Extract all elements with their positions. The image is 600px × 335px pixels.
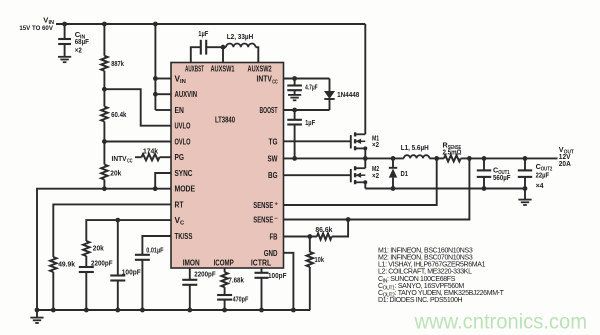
- node junction SENSE+ tap: [434, 156, 439, 161]
- svg-text:4.7µF: 4.7µF: [305, 83, 318, 92]
- wire 60.4k to OVLO node: [103, 89, 105, 141]
- ground below 4.7uF: [288, 90, 301, 100]
- 1uF aux value label: [198, 29, 208, 38]
- node junction SW at M1/M2: [363, 156, 368, 161]
- RSENSE value label: [443, 141, 462, 157]
- capacitor COUT2 22uF: [518, 158, 532, 188]
- svg-text:AUXSW1: AUXSW1: [211, 65, 235, 74]
- svg-text:LT3840: LT3840: [215, 115, 235, 124]
- wire 887k to UVLO node: [103, 71, 105, 89]
- 7.68k value label: [228, 275, 244, 284]
- node junction COUT1 top: [482, 156, 487, 161]
- capacitor 100pF compensation: [110, 276, 125, 281]
- U1 pin label AUXSW2: [248, 65, 273, 74]
- wire M2 source to power ground rail: [364, 182, 366, 188]
- ground below CIN: [58, 57, 71, 62]
- svg-text:M1: INFINEON, BSC160N10NS3: M1: INFINEON, BSC160N10NS3: [378, 247, 473, 254]
- U1 pin label UVLO: [175, 122, 191, 131]
- BOM note line 8: [378, 297, 462, 304]
- svg-text:ICTRL: ICTRL: [251, 258, 271, 267]
- svg-text:10k: 10k: [315, 255, 325, 264]
- 100pF ICTRL value label: [268, 271, 287, 280]
- U1 pin label GND: [264, 249, 278, 258]
- svg-text:D1: D1: [401, 169, 409, 178]
- U1 pin label IMON: [183, 258, 200, 267]
- wire PG line left end: [135, 156, 142, 158]
- wire EN pin stub: [155, 109, 171, 111]
- op-amp U1 LT3840 controller IC body: [171, 63, 284, 269]
- watermark cntronics: [414, 311, 587, 334]
- svg-text:×2: ×2: [372, 140, 379, 149]
- svg-text:FB: FB: [270, 233, 278, 242]
- node junction OVLO divider tap: [102, 139, 107, 144]
- wire 2200pF to ground rail: [85, 272, 87, 310]
- resistor 86.6k: [317, 233, 332, 239]
- wire VC line: [86, 220, 171, 241]
- resistor RSENSE 2.5mohm: [444, 155, 461, 161]
- capacitor 2200pF IMON: [182, 280, 197, 285]
- svg-text:IMON: IMON: [183, 258, 200, 267]
- BOM note line 4: [378, 269, 472, 276]
- wire VIN vertical to EN: [154, 24, 156, 110]
- U1 pin label AUXBST: [185, 65, 204, 74]
- wire IMON cap to ground rail: [189, 285, 191, 310]
- wire MODE line to ground: [37, 189, 171, 310]
- inductor L2 33uH: [223, 44, 256, 48]
- U1 pin label INTVCC: [257, 75, 279, 86]
- node junction ground symbol tap: [35, 308, 40, 313]
- U1 pin label MODE: [175, 185, 196, 194]
- U1 pin label OVLO: [175, 138, 191, 147]
- 10k value label: [315, 255, 325, 264]
- wire ground rail: [37, 309, 310, 311]
- node junction divider bottom on MODE line: [102, 186, 107, 191]
- CIN value label: [75, 30, 89, 54]
- wire UVLO branch: [104, 89, 171, 126]
- node junction FB 10k tap: [307, 234, 312, 239]
- wire SYNC stub: [155, 173, 171, 189]
- capacitor 2200pF compensation: [79, 267, 94, 272]
- svg-text:470pF: 470pF: [233, 294, 249, 303]
- svg-text:49.9k: 49.9k: [58, 259, 75, 268]
- svg-text:AUXBST: AUXBST: [185, 65, 204, 74]
- svg-text:L2: COILCRAFT, ME3220-333KL: L2: COILCRAFT, ME3220-333KL: [378, 269, 472, 276]
- svg-text:7.68k: 7.68k: [228, 275, 244, 284]
- diode D1: [389, 158, 397, 188]
- wire 470pF to ground rail: [224, 300, 226, 310]
- svg-text:×2: ×2: [75, 45, 82, 54]
- svg-text:L1: VISHAY, IHLP6767GZER5R6MA1: L1: VISHAY, IHLP6767GZER5R6MA1: [378, 262, 486, 269]
- svg-text:IN: IN: [180, 79, 186, 85]
- U1 pin label PG: [175, 153, 185, 162]
- resistor 20k compensation: [83, 241, 89, 256]
- svg-text:INTV: INTV: [112, 154, 128, 163]
- node junction D1 cathode on SW: [391, 156, 396, 161]
- node junction ground rail at ICTRL cap: [259, 308, 264, 313]
- node junction COUT2 top: [523, 156, 528, 161]
- ground main rail symbol: [30, 310, 43, 323]
- svg-text:86.6k: 86.6k: [315, 225, 333, 234]
- wire L1 to RSENSE: [429, 157, 444, 159]
- wire VIN rail to R 887k: [103, 24, 105, 56]
- wire AUXVIN pin stub: [155, 93, 171, 95]
- svg-text:174k: 174k: [143, 147, 159, 156]
- svg-text:15V TO 60V: 15V TO 60V: [19, 25, 53, 32]
- wire FB line: [284, 236, 317, 238]
- wire 20k to MODE line: [103, 180, 105, 189]
- U1 pin label AUXVIN: [175, 90, 198, 99]
- svg-text:×4: ×4: [536, 181, 544, 190]
- BOM note line 3: [378, 262, 486, 269]
- node junction 887k tap: [102, 22, 107, 27]
- svg-text:SYNC: SYNC: [175, 169, 193, 178]
- D1 reference label: [401, 169, 409, 178]
- svg-text:20k: 20k: [93, 244, 105, 253]
- svg-text:RT: RT: [175, 200, 184, 209]
- wire 86.6k to SENSE- line: [332, 220, 348, 237]
- capacitor CIN 68uF: [58, 24, 71, 56]
- svg-text:SW: SW: [268, 154, 278, 163]
- node junction 86.6k on SENSE- line: [346, 217, 351, 222]
- node VOUT output terminal label: [559, 145, 575, 168]
- svg-text:TG: TG: [269, 137, 278, 146]
- svg-text:SENSE: SENSE: [253, 216, 273, 225]
- svg-text:0.01µF: 0.01µF: [146, 246, 163, 255]
- svg-text:100pF: 100pF: [122, 267, 141, 276]
- capacitor 100pF ICTRL: [255, 273, 269, 278]
- BOM note line 2: [378, 255, 473, 262]
- transistor M2: [351, 166, 368, 184]
- wire 0.01uF to ground rail: [141, 260, 143, 310]
- node junction ground rail at 470pF: [222, 308, 227, 313]
- wire 100pF to ground rail: [117, 281, 119, 311]
- node junction ground rail at GND pin: [291, 308, 296, 313]
- capacitor COUT1 560uF: [477, 158, 491, 188]
- node junction BOOST cap tap: [292, 108, 297, 113]
- resistor 60.4k: [101, 107, 107, 122]
- svg-text:BG: BG: [268, 171, 278, 180]
- svg-text:2200pF: 2200pF: [91, 258, 113, 267]
- BOM note line 1: [378, 247, 473, 254]
- U1 pin label TK/SS: [175, 232, 193, 241]
- inductor L1 5.6uH: [404, 155, 430, 158]
- U1 pin label SW: [268, 154, 278, 163]
- svg-text:L2, 33µH: L2, 33µH: [227, 32, 254, 41]
- wire BG line: [284, 174, 351, 176]
- U1 part number label LT3840: [215, 115, 235, 124]
- node junction ground rail at 49.9k: [51, 308, 56, 313]
- svg-text:D1: DIODES INC. PDS5100H: D1: DIODES INC. PDS5100H: [378, 297, 462, 304]
- 100pF compensation value label: [122, 267, 141, 276]
- wire ICTRL stub: [261, 268, 263, 273]
- wire BOOST line: [284, 109, 330, 111]
- node junction VIN pin tap: [153, 22, 158, 27]
- svg-text:PG: PG: [175, 153, 185, 162]
- M1 reference label: [372, 133, 379, 149]
- 2200pF compensation value label: [91, 258, 113, 267]
- BOM note line 7: [378, 290, 505, 299]
- resistor 174k: [142, 154, 160, 160]
- wire GND pin to ground rail: [284, 253, 294, 310]
- wire TG line: [284, 140, 351, 142]
- wire SENSE+ return: [284, 158, 437, 205]
- svg-text:AUXVIN: AUXVIN: [175, 90, 198, 99]
- wire 49.9k to ground rail: [52, 272, 54, 310]
- node VIN input terminal label: [19, 15, 54, 32]
- node junction VC 100pF tap: [115, 218, 120, 223]
- COUT2 value label: [536, 162, 553, 190]
- L2 value label: [227, 32, 254, 41]
- ground below COUT2: [518, 189, 531, 206]
- node junction ground rail at 2200pF: [84, 308, 89, 313]
- svg-text:2.5mΩ: 2.5mΩ: [443, 147, 462, 156]
- node junction AUXSW1: [221, 45, 226, 50]
- U1 pin label BG: [268, 171, 278, 180]
- svg-text:MODE: MODE: [175, 185, 196, 194]
- 20k compensation value label: [93, 244, 105, 253]
- 49.9k value label: [58, 259, 75, 268]
- 1uF boost value label: [305, 118, 315, 127]
- wire AUXBST stub: [191, 47, 201, 62]
- node junction CIN tap: [62, 22, 67, 27]
- wire VIN pin stub: [155, 78, 171, 80]
- M2 reference label: [372, 164, 379, 180]
- svg-text:www.cntronics.com: www.cntronics.com: [414, 311, 587, 334]
- wire ICOMP stub: [224, 268, 226, 272]
- svg-text:L1, 5.6µH: L1, 5.6µH: [401, 143, 429, 152]
- resistor 20k divider: [101, 142, 107, 180]
- wire AUXSW1 stub: [222, 47, 224, 62]
- svg-text:2200pF: 2200pF: [194, 269, 216, 278]
- svg-text:1N4448: 1N4448: [337, 90, 359, 99]
- U1 pin label FB: [270, 233, 278, 242]
- svg-text:20A: 20A: [559, 159, 571, 168]
- 174k value label: [143, 147, 159, 156]
- wire 10k to ground rail: [309, 267, 311, 310]
- 0.01uF value label: [146, 246, 163, 255]
- capacitor 0.01uF soft-start: [135, 255, 150, 260]
- U1 pin label ICOMP: [214, 258, 235, 267]
- wire VIN to M1 drain: [364, 24, 366, 134]
- wire RT line: [53, 204, 171, 257]
- wire TK/SS line: [142, 236, 171, 255]
- svg-text:×2: ×2: [372, 171, 379, 180]
- 1N4448 value label: [337, 90, 359, 99]
- transistor M1: [351, 132, 368, 150]
- node junction VIN pin: [153, 76, 158, 81]
- resistor 49.9k: [50, 257, 56, 272]
- wire power ground rail: [365, 188, 525, 190]
- wire VIN rail: [56, 23, 365, 25]
- U1 pin label SYNC: [175, 169, 193, 178]
- wire RSENSE to output: [461, 157, 558, 159]
- node junction COUT2 bottom: [523, 186, 528, 191]
- svg-text:CC: CC: [272, 79, 278, 85]
- capacitor 1uF aux boost: [201, 40, 206, 55]
- 86.6k value label: [315, 225, 333, 234]
- U1 pin label RT: [175, 200, 184, 209]
- svg-text:GND: GND: [264, 249, 278, 258]
- U1 pin label TG: [269, 137, 278, 146]
- wire OVLO line: [104, 141, 171, 143]
- U1 pin label AUXSW1: [211, 65, 235, 74]
- wire INTVCC line: [284, 78, 330, 80]
- svg-text:EN: EN: [175, 106, 184, 115]
- BOM note line 6: [378, 283, 464, 292]
- node junction D1 anode on power ground: [391, 186, 396, 191]
- svg-text:ICOMP: ICOMP: [214, 258, 235, 267]
- node junction ground rail at 100pF: [115, 308, 120, 313]
- wire M2 drain to SW: [364, 158, 366, 168]
- capacitor 1uF boost: [287, 110, 302, 125]
- L1 value label: [401, 143, 429, 152]
- svg-text:1µF: 1µF: [305, 118, 315, 127]
- svg-text:INTV: INTV: [257, 75, 273, 84]
- svg-text:AUXSW2: AUXSW2: [248, 65, 273, 74]
- diode 1N4448: [324, 79, 335, 111]
- 60.4k value label: [111, 110, 127, 119]
- U1 pin label ICTRL: [251, 258, 271, 267]
- 4.7uF value label: [305, 83, 318, 92]
- svg-text:100pF: 100pF: [268, 271, 287, 280]
- U1 pin label EN: [175, 106, 184, 115]
- svg-text:20k: 20k: [110, 169, 122, 178]
- node junction ground rail at 0.01uF: [140, 308, 145, 313]
- svg-text:887k: 887k: [111, 59, 124, 68]
- 20k divider value label: [110, 169, 122, 178]
- svg-text:SENSE: SENSE: [253, 201, 273, 210]
- wire M1 source to SW: [364, 148, 366, 158]
- wire SW line: [284, 157, 404, 159]
- U1 pin label VC: [175, 216, 186, 227]
- svg-text:60.4k: 60.4k: [111, 110, 127, 119]
- U1 pin label SENSE+: [253, 201, 278, 210]
- svg-text:22µF: 22µF: [536, 170, 550, 179]
- svg-text:BOOST: BOOST: [260, 106, 278, 115]
- node junction UVLO divider tap: [102, 87, 107, 92]
- U1 pin label VIN: [175, 75, 186, 86]
- wire VC to 100pF: [117, 220, 119, 275]
- wire 7.68k to 470pF: [224, 287, 226, 295]
- wire IMON stub: [189, 268, 191, 280]
- capacitor 470pF: [217, 295, 232, 300]
- svg-text:560µF: 560µF: [493, 173, 511, 182]
- wire 20k to 2200pF: [85, 256, 87, 267]
- resistor 887k: [101, 56, 107, 71]
- wire AUXSW2 stub: [256, 47, 259, 62]
- svg-text:CC: CC: [127, 159, 133, 165]
- 2200pF IMON value label: [194, 269, 216, 278]
- U1 pin label BOOST: [260, 106, 278, 115]
- capacitor 4.7uF INTVCC: [287, 79, 302, 91]
- svg-text:TK/SS: TK/SS: [175, 232, 193, 241]
- node junction ground rail at IMON cap: [187, 308, 192, 313]
- resistor 7.68k: [221, 272, 227, 287]
- 470pF value label: [233, 294, 249, 303]
- node junction SENSE- tap: [467, 156, 472, 161]
- wire 174k to PG pin: [160, 156, 172, 158]
- node junction AUXVIN pin: [153, 92, 158, 97]
- node junction SYNC-MODE tie: [153, 186, 158, 191]
- svg-text:UVLO: UVLO: [175, 122, 191, 131]
- node junction boost cap on SW line: [292, 156, 297, 161]
- U1 pin label SENSE-: [253, 216, 278, 225]
- wire 1uF to AUXSW1: [207, 46, 224, 48]
- 887k value label: [111, 59, 124, 68]
- wire boost cap to SW: [294, 125, 296, 159]
- svg-text:1µF: 1µF: [198, 29, 208, 38]
- node INTVCC net label at PG: [112, 154, 133, 165]
- svg-text:OVLO: OVLO: [175, 138, 191, 147]
- COUT1 value label: [493, 166, 511, 182]
- node junction COUT1 bottom: [482, 186, 487, 191]
- svg-text:M2: INFINEON, BSC070N10NS3: M2: INFINEON, BSC070N10NS3: [378, 255, 473, 262]
- resistor 10k: [307, 237, 313, 267]
- BOM note line 5: [378, 276, 456, 285]
- node junction INTVCC cap tap: [292, 76, 297, 81]
- wire ICTRL cap to ground rail: [261, 278, 263, 310]
- wire SENSE- return: [284, 158, 470, 219]
